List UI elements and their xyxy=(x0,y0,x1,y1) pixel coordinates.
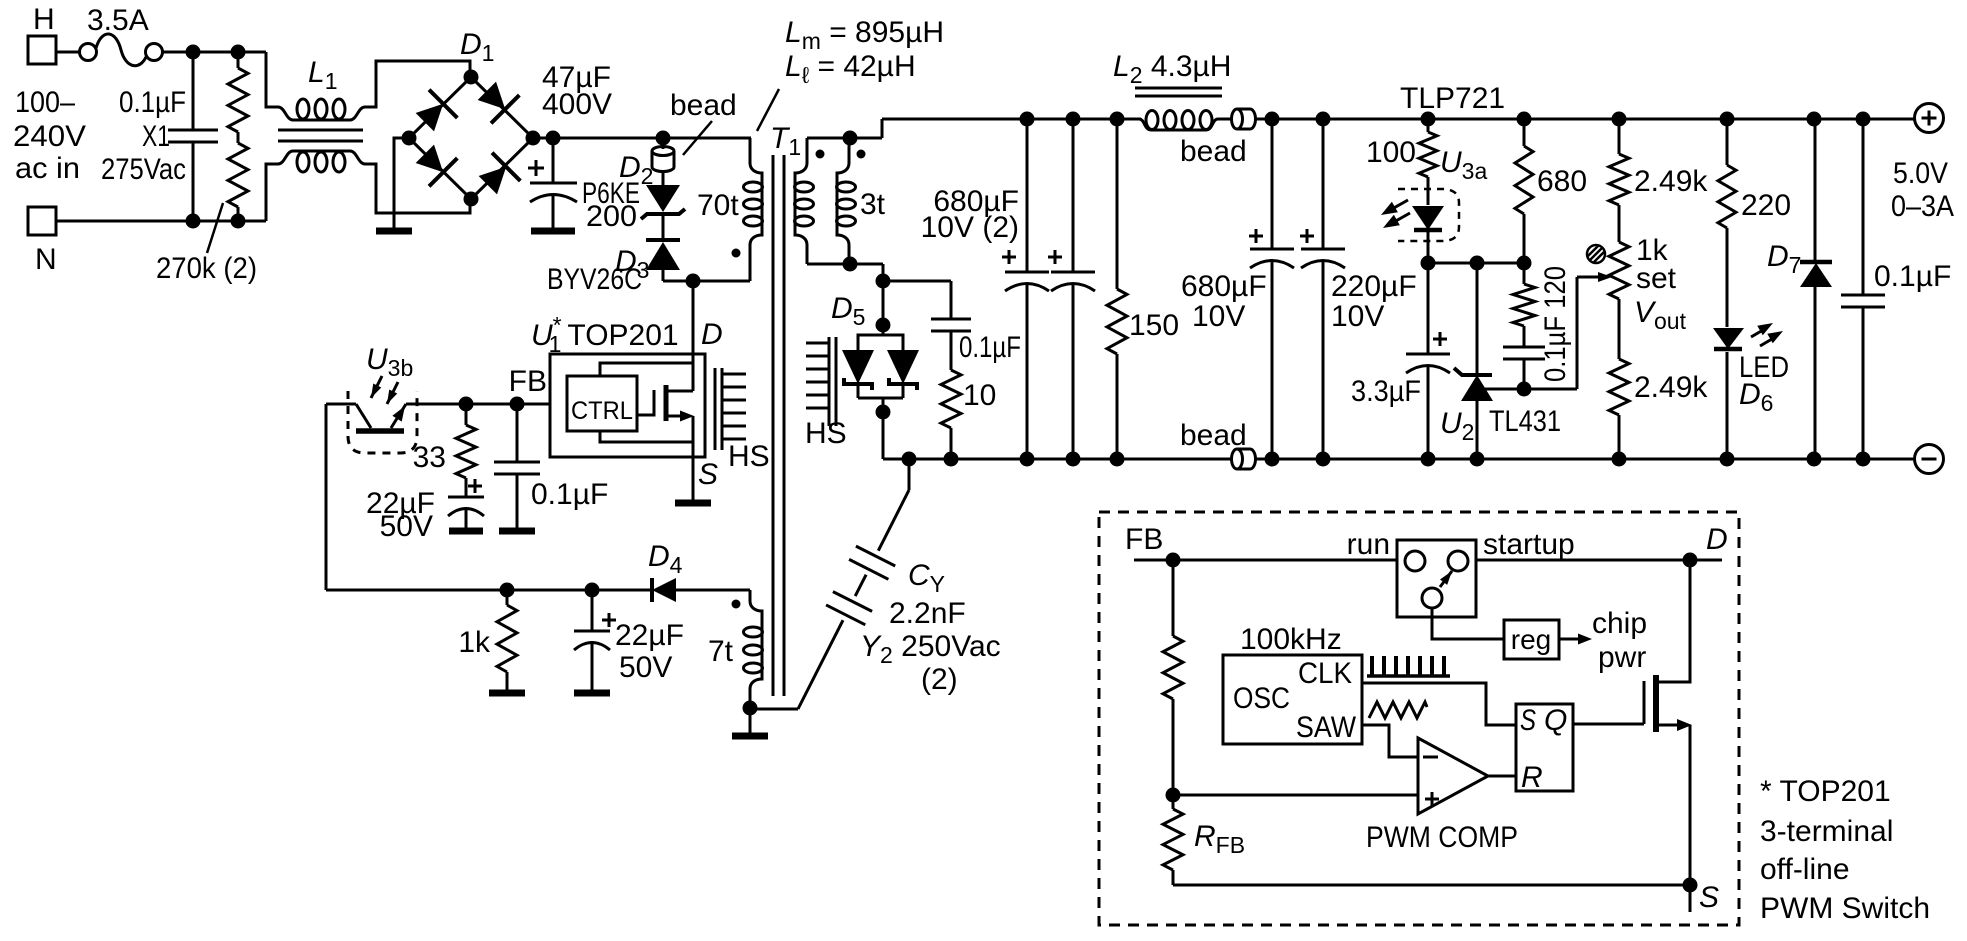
svg-text:100: 100 xyxy=(1366,136,1416,169)
svg-text:HS: HS xyxy=(728,440,770,473)
svg-text:R: R xyxy=(1521,761,1543,794)
svg-text:S: S xyxy=(1699,881,1719,914)
svg-text:bead: bead xyxy=(1180,419,1247,452)
svg-text:150: 150 xyxy=(1129,309,1179,342)
svg-text:bead: bead xyxy=(1180,135,1247,168)
svg-text:10V (2): 10V (2) xyxy=(921,211,1019,244)
svg-text:33: 33 xyxy=(413,441,446,474)
svg-text:22µF: 22µF xyxy=(615,619,684,652)
svg-text:2.2nF: 2.2nF xyxy=(889,597,966,630)
svg-text:0–3A: 0–3A xyxy=(1891,190,1954,223)
svg-text:bead: bead xyxy=(670,89,737,122)
svg-text:70t: 70t xyxy=(697,189,739,222)
svg-text:CLK: CLK xyxy=(1298,657,1352,690)
svg-text:S: S xyxy=(1520,704,1536,737)
svg-text:0.1µF: 0.1µF xyxy=(1874,260,1951,293)
svg-text:0.1µF 120: 0.1µF 120 xyxy=(1539,266,1572,382)
svg-text:50V: 50V xyxy=(619,651,672,684)
svg-text:X1: X1 xyxy=(142,120,170,153)
svg-text:chip: chip xyxy=(1592,607,1647,640)
svg-text:10: 10 xyxy=(963,379,996,412)
svg-text:S: S xyxy=(698,458,718,491)
svg-text:D: D xyxy=(1706,523,1728,556)
svg-text:BYV26C: BYV26C xyxy=(547,263,642,296)
svg-text:220: 220 xyxy=(1741,189,1791,222)
svg-text:TLP721: TLP721 xyxy=(1400,82,1505,115)
svg-text:HS: HS xyxy=(805,417,847,450)
svg-text:100–: 100– xyxy=(15,86,75,119)
svg-text:680µF: 680µF xyxy=(1181,270,1267,303)
svg-text:U*1TOP201: U*1TOP201 xyxy=(531,312,679,357)
svg-text:2.49k: 2.49k xyxy=(1634,165,1708,198)
svg-text:0.1µF: 0.1µF xyxy=(959,331,1021,364)
svg-text:SAW: SAW xyxy=(1296,711,1357,744)
svg-text:set: set xyxy=(1636,262,1677,295)
svg-text:FB: FB xyxy=(1125,523,1163,556)
svg-text:* TOP201: * TOP201 xyxy=(1760,775,1891,808)
svg-text:3t: 3t xyxy=(860,188,886,221)
svg-text:run: run xyxy=(1347,528,1390,561)
svg-text:270k (2): 270k (2) xyxy=(156,252,257,285)
svg-text:3-terminal: 3-terminal xyxy=(1760,815,1893,848)
svg-text:0.1µF: 0.1µF xyxy=(531,478,608,511)
svg-text:OSC: OSC xyxy=(1233,682,1290,715)
svg-text:10V: 10V xyxy=(1331,300,1384,333)
svg-text:0.1µF: 0.1µF xyxy=(119,86,186,119)
svg-text:CTRL: CTRL xyxy=(571,397,633,425)
svg-text:Q: Q xyxy=(1544,704,1567,737)
svg-text:220µF: 220µF xyxy=(1331,270,1417,303)
svg-text:(2): (2) xyxy=(921,663,958,696)
svg-text:reg: reg xyxy=(1511,624,1551,655)
svg-text:pwr: pwr xyxy=(1598,641,1646,674)
svg-text:D: D xyxy=(701,318,723,351)
svg-text:off-line: off-line xyxy=(1760,853,1850,886)
svg-text:3.5A: 3.5A xyxy=(87,4,149,37)
svg-text:5.0V: 5.0V xyxy=(1893,157,1948,190)
svg-text:50V: 50V xyxy=(380,510,433,543)
svg-text:1k: 1k xyxy=(458,626,491,659)
svg-text:200: 200 xyxy=(586,200,637,233)
svg-text:400V: 400V xyxy=(542,88,612,121)
svg-text:2.49k: 2.49k xyxy=(1634,371,1708,404)
svg-text:240V: 240V xyxy=(13,120,86,153)
svg-text:ac in: ac in xyxy=(15,152,80,185)
svg-text:startup: startup xyxy=(1483,528,1575,561)
svg-text:7t: 7t xyxy=(708,635,734,668)
svg-text:H: H xyxy=(33,3,55,36)
svg-text:PWM COMP: PWM COMP xyxy=(1366,821,1518,854)
svg-text:10V: 10V xyxy=(1192,300,1245,333)
svg-text:FB: FB xyxy=(509,365,547,398)
svg-text:100kHz: 100kHz xyxy=(1240,623,1342,656)
svg-text:275Vac: 275Vac xyxy=(101,153,186,186)
svg-text:N: N xyxy=(35,243,57,276)
svg-text:680: 680 xyxy=(1537,165,1587,198)
svg-text:PWM Switch: PWM Switch xyxy=(1760,892,1930,925)
svg-text:3.3µF: 3.3µF xyxy=(1351,375,1421,408)
svg-text:TL431: TL431 xyxy=(1489,405,1561,438)
